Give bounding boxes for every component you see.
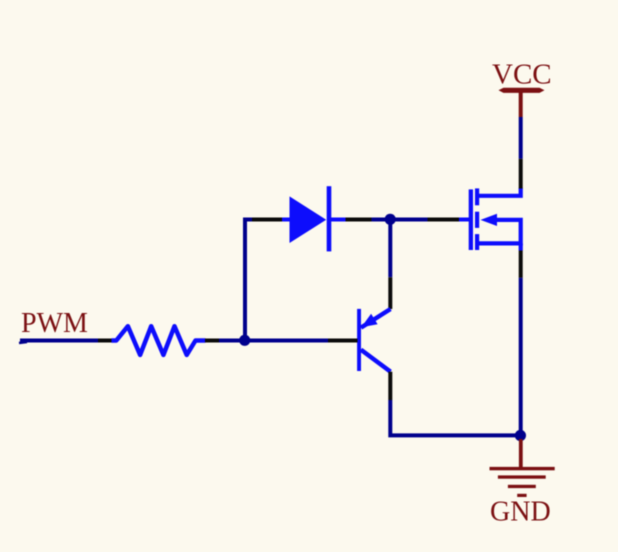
ground GND bar 1 xyxy=(490,467,555,470)
wire source to node C (navy) xyxy=(519,278,523,435)
MOSFET Q2 channel segment bottom xyxy=(475,234,479,250)
MOSFET Q2 channel segment middle xyxy=(475,212,479,228)
node C junction dot xyxy=(515,430,526,441)
node B junction dot xyxy=(385,214,396,225)
MOSFET Q2 gate bar xyxy=(469,189,473,250)
wire diode cathode lead (blue) xyxy=(331,218,346,222)
power VCC bar xyxy=(499,88,545,93)
port label PWM xyxy=(21,308,88,339)
transistor Q1 collector diagonal (blue) xyxy=(361,350,391,372)
wire base navy from node A xyxy=(245,339,328,343)
wire node A up to diode anode corner (navy) xyxy=(245,220,252,341)
wire node B to gate (navy) xyxy=(390,218,428,222)
wire BJT collector pin stub (black) xyxy=(388,372,392,400)
diode D1 cathode bar xyxy=(327,186,332,251)
wire node B down (navy) xyxy=(388,222,392,277)
wire source pin stub down (black) xyxy=(519,251,523,278)
wire cathode to node B (navy) xyxy=(372,218,392,222)
svg-text:VCC: VCC xyxy=(492,59,552,91)
ground GND stem (maroon) xyxy=(519,439,523,467)
wire base pin stub (black) xyxy=(328,339,358,343)
node A junction dot xyxy=(239,335,250,346)
wire resistor left pin stub (black) xyxy=(98,339,113,343)
transistor Q1 emitter arrow xyxy=(361,314,377,328)
ground GND bar 2 xyxy=(498,475,546,478)
wire resistor to node A (navy) xyxy=(219,339,245,343)
transistor Q1 emitter diagonal (blue) xyxy=(361,309,391,328)
transistor Q1 base bar xyxy=(357,309,361,371)
svg-text:GND: GND xyxy=(490,497,551,528)
wire resistor right pin stub (black) xyxy=(205,339,219,343)
wire collector down corner (navy) xyxy=(390,400,520,435)
MOSFET Q2 body arrow xyxy=(481,214,498,226)
power VCC stem (maroon) xyxy=(519,90,523,117)
wire diode anode pin stub (black) xyxy=(252,218,282,222)
MOSFET Q2 drain stub (top) xyxy=(477,188,521,196)
wire diode anode lead (blue) xyxy=(282,218,290,222)
wire gate pin stub (black) xyxy=(428,218,460,222)
resistor R1 xyxy=(112,326,206,355)
svg-text:PWM: PWM xyxy=(21,308,88,339)
wire gate lead (blue) xyxy=(459,218,469,222)
diode D1 triangle xyxy=(290,196,327,243)
MOSFET Q2 channel segment top xyxy=(475,188,479,205)
wire PWM net (navy, left of resistor) xyxy=(20,339,98,343)
wire diode cathode pin stub (black) xyxy=(346,218,372,222)
MOSFET Q2 source lead down (blue) xyxy=(519,243,523,250)
wire drain pin stub up (black) xyxy=(519,159,523,189)
ground GND bar 3 xyxy=(508,485,536,488)
power label VCC xyxy=(492,59,552,91)
port PWM pin tick xyxy=(19,342,27,343)
wire drain to VCC (navy) xyxy=(519,117,523,159)
ground GND bar 4 xyxy=(517,494,526,497)
wire BJT emitter pin stub (black) xyxy=(388,277,392,309)
MOSFET Q2 body wire to source (blue) xyxy=(477,220,521,244)
ground label GND xyxy=(490,497,551,528)
